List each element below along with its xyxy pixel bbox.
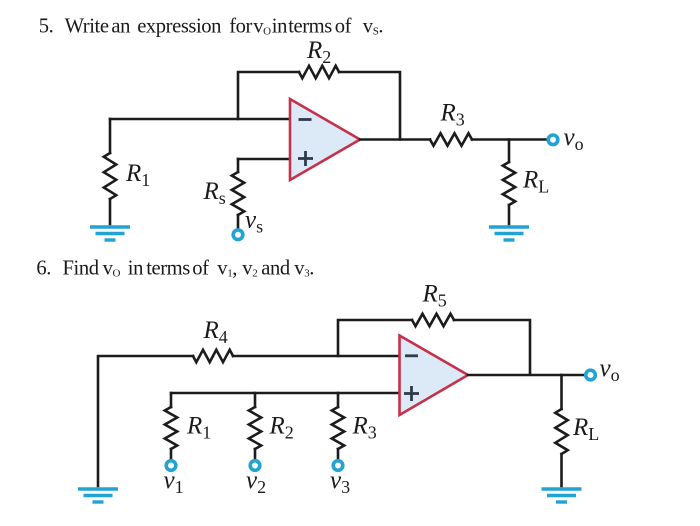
svg-text:Write: Write xyxy=(65,16,109,38)
ground RL p5 xyxy=(489,227,529,240)
resistor R1 p5 xyxy=(104,153,116,199)
wire minus-input p6 xyxy=(233,355,400,358)
wire output right p5 xyxy=(472,138,547,141)
svg-text:v1,: v1, xyxy=(217,258,237,280)
wire R1 bottom p5 xyxy=(109,199,112,224)
resistor R2 p6 xyxy=(249,407,261,449)
svg-text:Find: Find xyxy=(63,258,100,280)
resistor R5 xyxy=(412,314,454,326)
wire RL top p6 xyxy=(560,375,563,409)
terminal vo p6 xyxy=(586,370,596,380)
wire RL bottom p6 xyxy=(560,454,563,486)
wire plus-input p5 xyxy=(238,158,290,161)
terminal vs xyxy=(233,230,243,240)
wire R2 top p6 xyxy=(254,393,257,407)
svg-text:6.: 6. xyxy=(36,258,51,280)
wire plus-bus p6 xyxy=(171,392,400,395)
wire output p5 xyxy=(360,138,430,141)
resistor R1 p6 xyxy=(165,407,177,449)
wire R2 bottom p6 xyxy=(254,449,257,460)
svg-text:for: for xyxy=(229,16,252,38)
wire RL bottom p5 xyxy=(508,205,511,224)
op-amp U1 xyxy=(290,99,360,180)
resistor Rs xyxy=(232,172,244,215)
wire output p6 xyxy=(468,374,584,377)
svg-text:and: and xyxy=(261,258,291,280)
terminal v3 xyxy=(333,461,343,471)
minus sign U1 xyxy=(299,118,312,121)
resistor R3 p5 xyxy=(430,133,472,145)
wire ground-left + R4 left p6 xyxy=(98,356,193,486)
resistor R2 xyxy=(299,66,339,78)
svg-text:in: in xyxy=(128,258,143,280)
plus sign U2 xyxy=(404,386,419,401)
minus sign U2 xyxy=(405,354,418,357)
resistor R4 xyxy=(193,350,233,362)
svg-text:terms: terms xyxy=(288,16,332,38)
resistor RL p6 xyxy=(555,409,567,454)
svg-text:5.: 5. xyxy=(39,16,54,38)
ground left p6 xyxy=(78,489,118,502)
wire Rs top p5 xyxy=(237,159,240,172)
wire R3 bottom p6 xyxy=(337,449,340,460)
svg-text:of: of xyxy=(192,258,209,280)
svg-text:an: an xyxy=(111,16,130,38)
wire R1 top p6 xyxy=(170,393,173,407)
plus sign U1 xyxy=(298,151,313,166)
svg-text:expression: expression xyxy=(137,16,221,38)
op-amp U2 xyxy=(400,336,469,416)
terminal v1 xyxy=(166,461,176,471)
wire Rs bottom p5 xyxy=(237,215,240,229)
svg-text:terms: terms xyxy=(146,258,190,280)
svg-text:v3.: v3. xyxy=(294,258,314,280)
wire RL top p5 xyxy=(508,140,511,163)
svg-text:in: in xyxy=(272,16,287,38)
terminal v2 xyxy=(250,461,260,471)
wire feedback right p5 xyxy=(339,72,400,140)
wire R5 right leg p6 xyxy=(454,320,530,375)
wire feedback left p5 xyxy=(238,72,299,119)
wire R1 top p5 xyxy=(109,119,112,153)
ground RL p6 xyxy=(542,489,582,502)
wire R1 bottom p6 xyxy=(170,449,173,460)
resistor R3 p6 xyxy=(332,407,344,449)
resistor RL p5 xyxy=(503,162,515,205)
wire R3 top p6 xyxy=(337,393,340,407)
ground R1 p5 xyxy=(90,227,130,240)
terminal vo p5 xyxy=(548,135,558,145)
wire R5 left leg p6 xyxy=(338,320,412,356)
svg-text:of: of xyxy=(335,16,352,38)
wire minus-input p5 xyxy=(110,118,290,121)
